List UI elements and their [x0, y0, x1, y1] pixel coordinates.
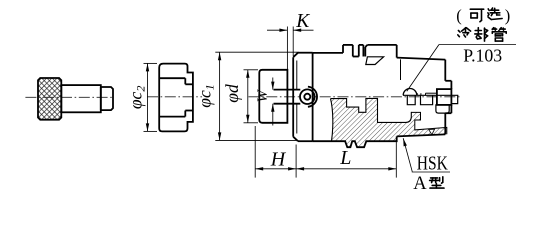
svg-text:HSK: HSK	[417, 153, 448, 174]
svg-text:H: H	[270, 148, 287, 170]
svg-text:L: L	[339, 147, 351, 169]
svg-text:P.103: P.103	[463, 46, 502, 66]
svg-text:φd: φd	[222, 84, 242, 103]
svg-text:K: K	[295, 11, 310, 32]
svg-text:(: (	[456, 6, 462, 25]
svg-text:W: W	[255, 88, 271, 102]
svg-text:): )	[505, 6, 511, 25]
svg-text:A: A	[413, 174, 427, 194]
